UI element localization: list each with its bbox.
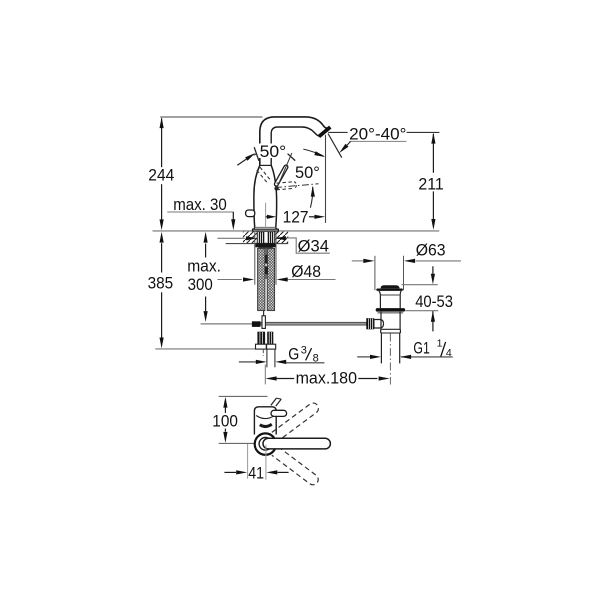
hidden lever dashes in body	[257, 170, 269, 184]
hose connection nuts	[256, 344, 267, 349]
svg-text:1: 1	[437, 337, 443, 349]
svg-text:3: 3	[301, 344, 307, 356]
dashed lever position upper	[272, 401, 321, 441]
dimension max.180	[264, 365, 266, 385]
flexible hose right	[267, 248, 274, 310]
svg-text:127: 127	[283, 209, 309, 227]
svg-text:40-53: 40-53	[415, 293, 453, 311]
dimension max.30	[167, 211, 234, 213]
rod knurled knob right	[366, 318, 374, 329]
svg-text:max.: max.	[187, 257, 221, 275]
svg-text:Ø63: Ø63	[416, 241, 446, 259]
top view body	[254, 407, 276, 435]
faucet front: body left edge	[254, 165, 260, 227]
arc right arrow	[314, 151, 325, 157]
spout/body joint line	[259, 164, 271, 166]
hose end fittings	[257, 332, 265, 345]
arc end tick	[254, 147, 259, 161]
swivel arc 50deg	[254, 147, 324, 156]
knob neck	[379, 291, 381, 308]
dashed lever outline (open position)	[277, 182, 295, 184]
hose tail pipe right	[266, 349, 268, 367]
svg-text:100: 100	[212, 413, 238, 431]
top view spout nib	[271, 398, 277, 405]
dimension max.300 line	[205, 244, 207, 258]
counter hatch left	[243, 232, 257, 244]
svg-text:50°: 50°	[260, 143, 287, 161]
dimension diam 63	[352, 260, 363, 262]
dimension diam 34	[217, 237, 245, 239]
385 bottom extension line	[155, 348, 256, 350]
faucet front: body right edge	[271, 165, 276, 227]
opening arc 50deg	[310, 187, 312, 208]
dimension 127	[266, 216, 268, 218]
pop-up drain: knob cap	[381, 285, 400, 288]
lever rod (raised position)	[274, 164, 289, 186]
svg-text:Ø48: Ø48	[291, 263, 321, 281]
drain body	[380, 312, 382, 330]
svg-text:385: 385	[148, 275, 174, 293]
dimension 41	[247, 444, 249, 479]
100 extension bottom	[219, 442, 255, 444]
top view base circle	[255, 433, 276, 454]
faucet front: spout inner edge	[271, 127, 319, 166]
knob skirt band	[376, 289, 403, 291]
lever pivot blob	[274, 187, 278, 191]
arc left leader arrow	[237, 159, 246, 165]
base flare left	[253, 227, 255, 229]
svg-text:max.180: max.180	[296, 369, 357, 387]
outlet angle leader lines	[328, 131, 347, 133]
flexible hose left	[258, 248, 265, 310]
faucet front: spout outer edge	[260, 117, 330, 166]
hose tail centerline left	[262, 349, 264, 356]
svg-text:20°-40°: 20°-40°	[349, 126, 406, 144]
top view lever side rod	[271, 410, 287, 416]
drain collar	[381, 328, 400, 330]
svg-text:G1: G1	[413, 340, 429, 358]
dimension 100	[224, 407, 226, 413]
svg-text:41: 41	[248, 465, 264, 483]
100 extension top	[219, 395, 268, 397]
dimension 40-53	[402, 284, 438, 286]
counter top line	[153, 230, 440, 232]
dimension 211	[432, 134, 434, 173]
dimension 244 line	[161, 118, 163, 167]
drain joint box	[374, 320, 384, 329]
base flare right	[276, 227, 278, 229]
lever hood crescent	[260, 424, 272, 426]
faucet axis line	[265, 203, 267, 228]
svg-text:Ø34: Ø34	[298, 237, 329, 255]
svg-text:244: 244	[148, 167, 174, 185]
top view lever bar	[263, 438, 330, 449]
body bottom joint	[255, 226, 276, 228]
body dome arc	[256, 415, 275, 418]
drain tailpipe	[380, 333, 382, 363]
svg-text:max. 30: max. 30	[173, 196, 227, 214]
horizontal pop-up rod	[201, 323, 253, 325]
dimension 385 line	[161, 243, 163, 272]
svg-text:300: 300	[188, 276, 213, 294]
x mark / lever centerline	[288, 154, 296, 161]
spout top extension line	[160, 116, 262, 118]
svg-text:50°: 50°	[295, 164, 320, 182]
counter hatch right	[272, 232, 288, 244]
pull rod between hoses	[265, 249, 267, 257]
lever horizontal dash-dot centerline	[275, 184, 319, 188]
spout outlet face	[319, 127, 330, 137]
svg-text:G: G	[288, 346, 299, 364]
dashed lever position lower	[272, 447, 321, 487]
rod knurled knob left	[252, 321, 261, 327]
drain flange	[376, 308, 405, 312]
svg-text:211: 211	[418, 175, 443, 193]
rod joint block	[262, 316, 265, 329]
outlet vertical extension line	[325, 135, 327, 223]
counter bottom line	[226, 243, 289, 245]
label 20-40 deg underline	[349, 140, 406, 142]
drain pull-rod knob on body	[246, 210, 255, 217]
base plate	[253, 229, 279, 231]
outlet direction line	[328, 134, 342, 158]
top view inner circle	[259, 438, 272, 451]
outlet angle arrow	[347, 141, 351, 145]
dimension diam 48	[217, 279, 242, 281]
pull rod stem	[263, 311, 265, 317]
mounting shank	[257, 231, 274, 243]
mounting nut	[255, 244, 276, 248]
drain centerline	[389, 334, 391, 385]
